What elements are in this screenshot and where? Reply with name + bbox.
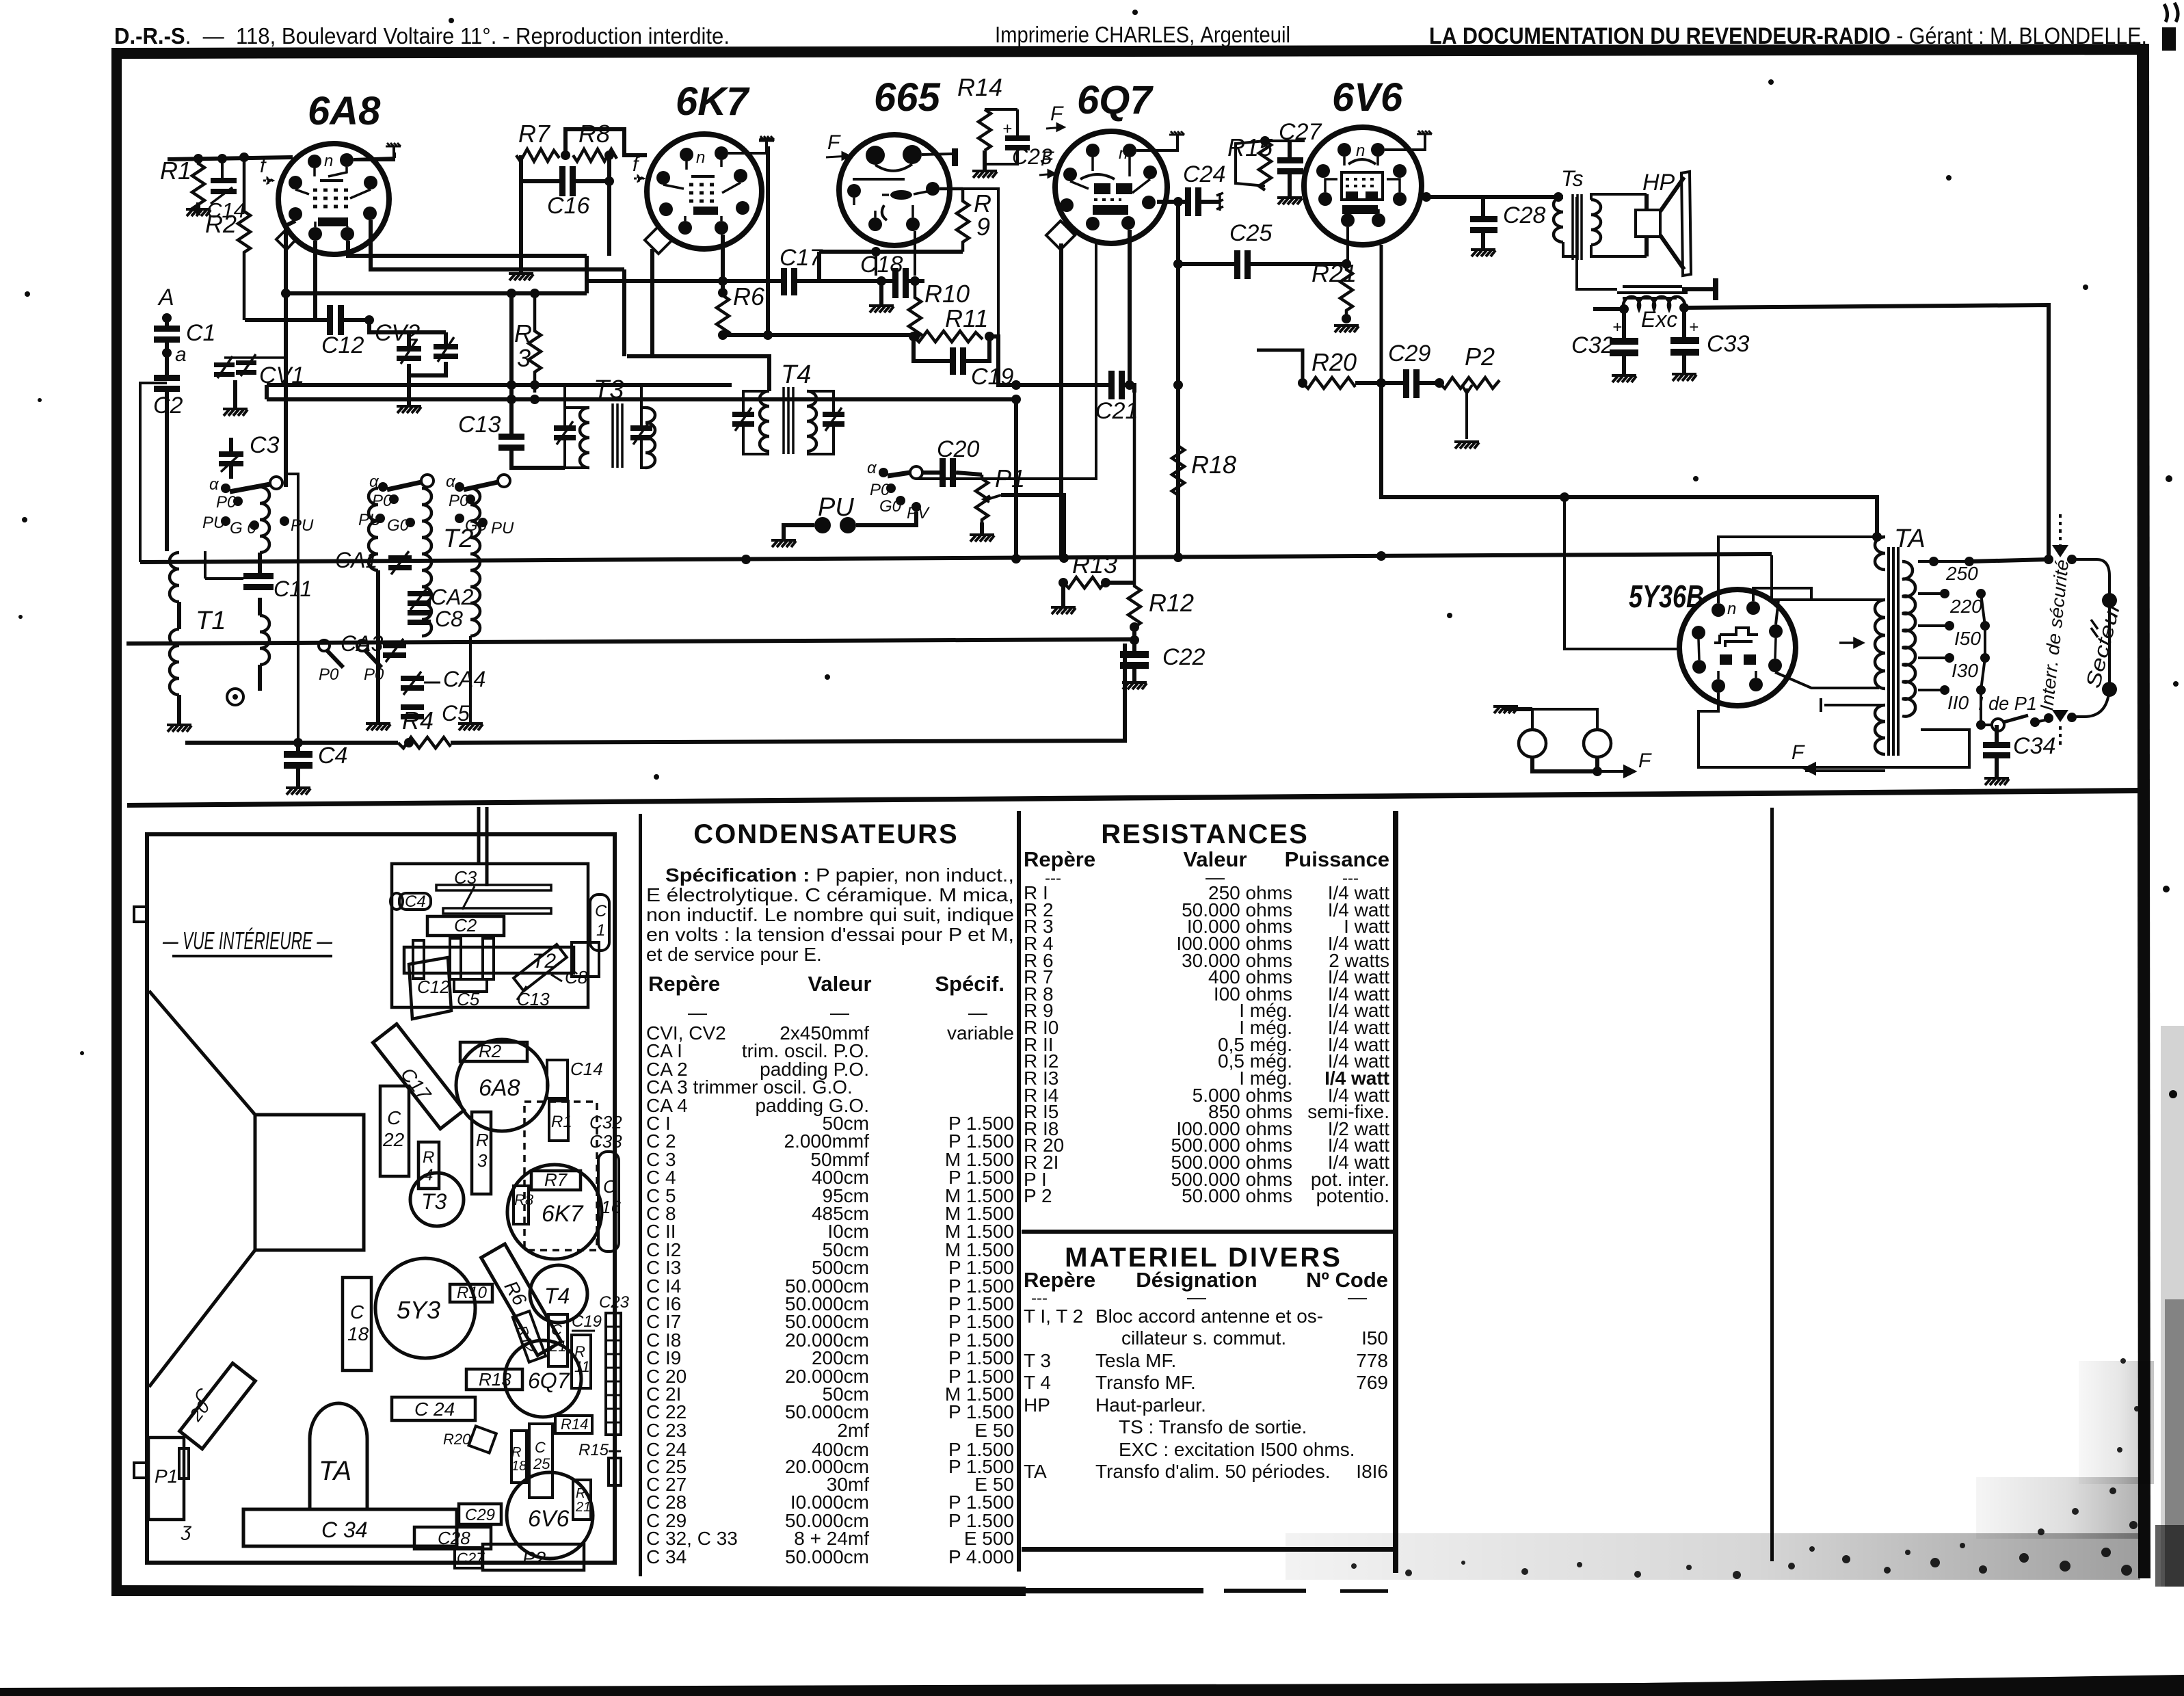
- grid-cap 6V6: [1417, 131, 1432, 134]
- svg-text:Haut-parleur.: Haut-parleur.: [1095, 1394, 1206, 1416]
- tube 6Q7: [1046, 78, 1167, 250]
- svg-text:C32: C32: [1571, 332, 1614, 358]
- svg-text:n: n: [1727, 600, 1736, 618]
- svg-text:C: C: [551, 1321, 562, 1338]
- svg-text:6Q7: 6Q7: [1077, 78, 1154, 122]
- svg-text:C12: C12: [321, 332, 364, 358]
- svg-text:Spécif.: Spécif.: [935, 972, 1004, 996]
- svg-text:Bloc accord antenne et os-: Bloc accord antenne et os-: [1095, 1306, 1323, 1327]
- svg-text:R: R: [511, 1445, 521, 1460]
- svg-text:P2: P2: [1465, 343, 1495, 371]
- wire antenna column riser: [140, 383, 167, 562]
- HP magnet bars: [1617, 287, 1688, 298]
- svg-text:variable: variable: [947, 1022, 1014, 1044]
- T4 left trimmer: [732, 412, 754, 417]
- svg-text:C4: C4: [318, 743, 347, 769]
- divider line between schematic and lists: [127, 788, 2141, 808]
- wire bus y563: [267, 383, 732, 387]
- R13 bar: [466, 1369, 522, 1390]
- svg-text:R10: R10: [457, 1284, 488, 1302]
- svg-text:C12: C12: [417, 977, 450, 997]
- svg-text:769: 769: [1356, 1372, 1388, 1393]
- wire main HT bus: [140, 554, 1772, 562]
- band switch group 1: [202, 475, 314, 538]
- wire 6Q7 pin down 2: [916, 243, 1096, 479]
- svg-text:220: 220: [1949, 596, 1982, 617]
- svg-text:C28: C28: [1503, 202, 1545, 228]
- svg-text:R13: R13: [479, 1369, 511, 1390]
- svg-text:T1: T1: [196, 607, 226, 635]
- T4 left coil: [760, 391, 769, 451]
- table column line 1: [639, 814, 642, 1576]
- wire 6K7 grid cap lead: [766, 146, 770, 208]
- resistances rows: [1024, 882, 1389, 1206]
- C8 slanted rect: [514, 944, 567, 991]
- wire node 1486 down: [1014, 399, 1018, 559]
- svg-text:R15: R15: [578, 1441, 609, 1459]
- svg-text:R20: R20: [1311, 348, 1357, 376]
- svg-text:I30: I30: [1952, 660, 1978, 681]
- wire 6A8 pin bus lower: [371, 220, 624, 356]
- svg-text:5Y36B: 5Y36B: [1629, 579, 1704, 614]
- svg-text:A: A: [157, 284, 174, 310]
- svg-text:6Q7: 6Q7: [528, 1368, 570, 1393]
- TA dome: [310, 1403, 367, 1509]
- svg-text:250: 250: [1945, 563, 1978, 584]
- switch alpha-PO-GO-PU (detector input): [867, 459, 930, 522]
- svg-text:T 3: T 3: [1024, 1350, 1051, 1371]
- svg-text:C2: C2: [454, 915, 477, 936]
- svg-text:R10: R10: [924, 280, 970, 308]
- ground under R1: [186, 209, 211, 216]
- svg-text:665: 665: [874, 75, 941, 120]
- C18 bar: [343, 1277, 371, 1370]
- svg-text:6A8: 6A8: [308, 89, 381, 133]
- svg-text:C33: C33: [589, 1131, 622, 1152]
- tube 5Y3GB rectifier: [1629, 579, 1796, 706]
- svg-text:P1: P1: [155, 1466, 178, 1487]
- wire 6A8 grid bus: [168, 157, 293, 159]
- svg-text:Repère: Repère: [1024, 847, 1095, 871]
- tube 6V6: [1304, 75, 1422, 245]
- svg-text:Imprimerie CHARLES, Argenteuil: Imprimerie CHARLES, Argenteuil: [995, 22, 1290, 47]
- C2 rect: [427, 916, 504, 936]
- svg-text:C28: C28: [438, 1528, 470, 1548]
- svg-text:R1: R1: [551, 1113, 572, 1131]
- wire AVC bus: [126, 639, 1134, 644]
- 6V6 tube circle: [507, 1472, 593, 1559]
- C1 vertical capsule: [590, 895, 609, 951]
- wire 5Y3 filament lead: [1775, 672, 1879, 688]
- svg-text:n: n: [324, 152, 333, 170]
- wire R11 node to C21: [989, 336, 1032, 385]
- svg-text:6V6: 6V6: [1332, 75, 1403, 120]
- svg-text:F: F: [827, 131, 841, 154]
- C27 bar: [455, 1548, 482, 1568]
- R8 bar: [514, 1186, 529, 1224]
- svg-text:C5: C5: [457, 989, 480, 1009]
- svg-text:Valeur: Valeur: [808, 972, 871, 996]
- R4 bar: [418, 1142, 439, 1189]
- svg-text:C32: C32: [589, 1112, 622, 1132]
- C16 capsule: [598, 1152, 619, 1251]
- svg-text:C27: C27: [457, 1550, 485, 1567]
- wire to 5Y3 left: [1564, 497, 1681, 649]
- svg-text:C5: C5: [442, 701, 470, 726]
- R1 bar: [549, 1101, 568, 1141]
- svg-text:Ts: Ts: [1561, 166, 1584, 191]
- 6G5 right tick: [952, 148, 958, 166]
- wire C4 riser: [286, 474, 298, 743]
- svg-text:C: C: [350, 1301, 364, 1323]
- svg-text:+: +: [1689, 318, 1699, 336]
- band switch group 2: [358, 473, 434, 535]
- wire 6V6 plate to TS: [1422, 195, 1563, 199]
- svg-text:R14: R14: [957, 73, 1002, 101]
- svg-text:F: F: [1792, 741, 1805, 764]
- svg-text:+: +: [1612, 318, 1622, 336]
- TA HT winding main: [1875, 600, 1885, 689]
- T4 right coil: [807, 391, 816, 451]
- svg-text:C16: C16: [547, 193, 589, 219]
- svg-text:EXC : excitation I500 ohms.: EXC : excitation I500 ohms.: [1119, 1439, 1355, 1460]
- border frame bottom bar (fades to the right): [111, 1585, 1026, 1596]
- line under materiel divers table: [1022, 1547, 1393, 1552]
- svg-text:T3: T3: [421, 1189, 447, 1214]
- wire R4 bus: [185, 644, 1125, 743]
- svg-text:R: R: [476, 1130, 489, 1150]
- C12 parallelogram: [409, 957, 451, 1019]
- svg-text:n: n: [1356, 142, 1365, 160]
- wire 6G5 plate to R11 node: [963, 189, 998, 336]
- svg-text:R18: R18: [1191, 451, 1236, 479]
- svg-text:25: 25: [533, 1455, 550, 1472]
- svg-text:C25: C25: [1229, 220, 1272, 246]
- stray dots schematic area: [449, 18, 454, 23]
- svg-text:2mf: 2mf: [837, 1420, 869, 1441]
- svg-text:C8: C8: [565, 967, 588, 988]
- stray dots left margin: [25, 291, 30, 297]
- svg-text:C 24: C 24: [414, 1399, 455, 1420]
- C5 small rect: [454, 979, 487, 992]
- wire 5Y3 cathode loop: [1699, 693, 1969, 767]
- dial bars: [436, 885, 551, 890]
- svg-text:R2: R2: [205, 210, 237, 238]
- wire 6K7 right pin down: [766, 208, 770, 334]
- svg-text:Repère: Repère: [648, 972, 720, 996]
- svg-text:P 4.000: P 4.000: [948, 1546, 1014, 1567]
- bottom scan band: [0, 1675, 2184, 1696]
- wire B+ to mains panel: [1684, 305, 2049, 559]
- svg-text:PU: PU: [491, 519, 514, 538]
- svg-text:50.000cm: 50.000cm: [785, 1546, 869, 1567]
- svg-text:T4: T4: [544, 1284, 570, 1308]
- condensateurs rows: [646, 1022, 1014, 1567]
- svg-text:C: C: [595, 902, 607, 920]
- page number mark top right: [2164, 3, 2178, 22]
- svg-text:C3: C3: [250, 432, 280, 458]
- svg-text:cillateur s. commut.: cillateur s. commut.: [1121, 1327, 1286, 1349]
- C20 slanted bar: [180, 1363, 256, 1448]
- svg-text:en volts : la tension d'essai: en volts : la tension d'essai pour P et …: [646, 924, 1014, 945]
- T3 circle: [410, 1173, 464, 1226]
- tuner block box: [392, 864, 588, 1007]
- svg-text:T I, T 2: T I, T 2: [1024, 1306, 1083, 1327]
- grid-cap 6K7: [759, 136, 774, 140]
- svg-text:C29: C29: [1388, 341, 1430, 367]
- T3 core: [613, 403, 622, 468]
- svg-text:C11: C11: [274, 577, 312, 601]
- dashed alignment box: [524, 1102, 597, 1250]
- TA voltage taps: [1918, 557, 2049, 713]
- oscillator block T2: [366, 488, 483, 730]
- wire 6Q7 pin down 1: [1059, 243, 1063, 559]
- R12 slanted bar: [513, 1311, 546, 1362]
- svg-text:C8: C8: [435, 607, 463, 631]
- svg-text:6V6: 6V6: [528, 1506, 570, 1532]
- wire 5Y3 plate top: [1718, 537, 1885, 603]
- R11 bar: [572, 1335, 591, 1388]
- svg-text:1: 1: [596, 921, 605, 940]
- svg-text:P 2: P 2: [1024, 1185, 1052, 1206]
- T3 left trimmer: [554, 425, 576, 431]
- svg-text:+: +: [1002, 120, 1012, 138]
- wire bus y429: [286, 291, 587, 295]
- svg-text:—: —: [968, 1002, 987, 1023]
- C34 bar: [243, 1509, 457, 1546]
- svg-text:P0: P0: [319, 665, 339, 684]
- svg-text:6K7: 6K7: [676, 79, 750, 124]
- svg-text:I50: I50: [1954, 628, 1981, 649]
- TA HT winding top: [1875, 537, 1885, 570]
- svg-text:E électrolytique. C céramique.: E électrolytique. C céramique. M mica,: [646, 884, 1014, 905]
- wire 5Y3 pin stub: [1776, 600, 1779, 624]
- wire T3 to T4: [627, 356, 769, 391]
- tube 6K7: [645, 79, 762, 254]
- svg-text:C1: C1: [186, 320, 215, 346]
- key notch: [276, 229, 296, 250]
- ground under C18 wire: [879, 281, 883, 304]
- speckle band above bottom right: [0, 0, 1, 1]
- svg-text:CA2: CA2: [431, 585, 473, 609]
- svg-text:C24: C24: [1183, 161, 1225, 187]
- output transformer TS: [1554, 166, 1647, 260]
- svg-text:PU: PU: [291, 516, 314, 535]
- R7 bar: [531, 1171, 581, 1190]
- C22 bar: [380, 1086, 409, 1176]
- svg-text:F: F: [1050, 103, 1064, 125]
- C4 small tube: [399, 893, 431, 910]
- svg-text:R8: R8: [578, 120, 610, 148]
- svg-text:Repère: Repère: [1024, 1268, 1095, 1292]
- svg-text:C22: C22: [1162, 644, 1205, 670]
- svg-text:—: —: [830, 1002, 849, 1023]
- svg-text:Transfo MF.: Transfo MF.: [1095, 1372, 1196, 1393]
- filament tap arrow: [1839, 639, 1863, 647]
- R8 bypass wire loop: [565, 129, 647, 155]
- svg-text:C23: C23: [599, 1293, 630, 1312]
- materiel divers rows: [1024, 1306, 1388, 1482]
- wire 6A8 pin to 6K7 row: [348, 241, 587, 293]
- TA core: [1889, 547, 1898, 756]
- svg-text:—: —: [1187, 1286, 1206, 1308]
- svg-text:CONDENSATEURS: CONDENSATEURS: [693, 819, 959, 849]
- svg-text:— VUE INTÉRIEURE —: — VUE INTÉRIEURE —: [162, 927, 332, 955]
- T4 circle: [530, 1265, 587, 1323]
- svg-text:5Y3: 5Y3: [397, 1296, 440, 1324]
- table column line 3: [1393, 811, 1398, 1573]
- svg-text:C4: C4: [405, 892, 426, 911]
- svg-text:F: F: [1638, 750, 1652, 772]
- C24 bar: [392, 1397, 475, 1420]
- C14 bar: [547, 1060, 568, 1098]
- T4 right trimmer: [823, 412, 844, 417]
- ground under CV2: [397, 406, 421, 413]
- svg-text:C: C: [387, 1107, 401, 1128]
- svg-text:I50: I50: [1361, 1327, 1388, 1349]
- TA primary winding: [1902, 561, 1915, 717]
- pilot lamps: [1493, 706, 1652, 776]
- power transformer TA: [1792, 525, 1926, 773]
- svg-text:II0: II0: [1947, 692, 1969, 713]
- 6Q7 tube circle: [505, 1340, 581, 1417]
- svg-text:9: 9: [976, 213, 990, 241]
- wire 6V6 cathode R20: [1257, 245, 1381, 383]
- svg-text:6K7: 6K7: [542, 1201, 584, 1227]
- svg-text:Exc: Exc: [1641, 307, 1677, 332]
- table column line 2: [1017, 811, 1021, 1572]
- svg-text:P0: P0: [364, 665, 384, 684]
- svg-text:T4: T4: [781, 360, 811, 389]
- svg-text:RESISTANCES: RESISTANCES: [1101, 819, 1309, 849]
- small socket circle: [227, 689, 243, 705]
- speaker HP: [1636, 170, 1691, 276]
- svg-text:6A8: 6A8: [479, 1075, 520, 1101]
- svg-text:C14: C14: [570, 1059, 603, 1079]
- R21 bar: [573, 1480, 591, 1520]
- svg-text:T 4: T 4: [1024, 1372, 1051, 1393]
- speaker magnet square: [255, 1115, 364, 1250]
- mains connection secteur: [2036, 514, 2125, 747]
- svg-text:R14: R14: [561, 1416, 588, 1433]
- grid-cap 6Q7: [1169, 131, 1184, 135]
- svg-text:21: 21: [575, 1500, 591, 1515]
- svg-text:G0: G0: [387, 516, 410, 535]
- svg-text:a: a: [175, 343, 187, 366]
- svg-text:C33: C33: [1707, 331, 1749, 357]
- 6A8 tube circle: [456, 1039, 548, 1131]
- svg-text:HP: HP: [1642, 170, 1675, 196]
- svg-text:778: 778: [1356, 1350, 1388, 1371]
- svg-text:R6: R6: [733, 282, 765, 310]
- P2 bar: [483, 1544, 584, 1570]
- wire HT bus to TA winding: [1772, 555, 1874, 600]
- border frame right bar: [2137, 44, 2150, 1578]
- ground under R7: [519, 155, 523, 272]
- wire bus y584: [267, 397, 1016, 401]
- speaker cone outline: [149, 991, 255, 1387]
- svg-text:50.000 ohms: 50.000 ohms: [1182, 1185, 1292, 1206]
- T4 core: [784, 387, 793, 454]
- R6 slanted bar: [481, 1244, 561, 1355]
- svg-text:R: R: [423, 1148, 434, 1167]
- wire 5Y3 plate 2: [1753, 588, 1885, 601]
- T3 right trimmer: [630, 425, 652, 431]
- svg-text:non inductif. Le nombre qui su: non inductif. Le nombre qui suit, indiqu…: [646, 904, 1014, 925]
- svg-text:16: 16: [601, 1197, 621, 1217]
- svg-text:C: C: [603, 1176, 616, 1197]
- R14 bar: [555, 1416, 592, 1433]
- C21 bar: [548, 1314, 568, 1366]
- svg-text:CA4: CA4: [443, 667, 485, 691]
- svg-text:R11: R11: [945, 304, 988, 332]
- svg-text:TA: TA: [1024, 1461, 1047, 1482]
- svg-text:potentio.: potentio.: [1316, 1185, 1389, 1206]
- C25 bar + R18 bar: [511, 1431, 527, 1483]
- svg-text:TA: TA: [319, 1456, 351, 1486]
- svg-text:R20: R20: [443, 1431, 471, 1448]
- svg-text:R2: R2: [479, 1041, 502, 1061]
- svg-text:F: F: [1041, 148, 1054, 170]
- ground under CV1: [223, 409, 248, 416]
- svg-text:C 34: C 34: [321, 1518, 368, 1542]
- svg-text:3: 3: [477, 1150, 488, 1171]
- C28 bar: [414, 1527, 491, 1549]
- border frame left bar: [111, 48, 122, 1596]
- tube 6G5: [839, 75, 950, 246]
- band switch group 3: [446, 473, 514, 538]
- svg-text:R8: R8: [514, 1191, 534, 1208]
- svg-text:C 23: C 23: [646, 1420, 687, 1441]
- svg-text:C29: C29: [465, 1506, 495, 1524]
- IF transformer T4: [732, 360, 844, 454]
- svg-text:I de P1: I de P1: [1978, 693, 2037, 714]
- C29 bar: [459, 1504, 501, 1524]
- small band switches PO: [319, 640, 384, 684]
- svg-text:C17: C17: [780, 245, 823, 271]
- svg-text:T2: T2: [443, 525, 473, 553]
- svg-text:C19: C19: [572, 1312, 602, 1331]
- svg-text:Tesla MF.: Tesla MF.: [1095, 1350, 1176, 1371]
- wire 6Q7 pin down 3: [1128, 230, 1132, 385]
- T3 left coil: [580, 408, 589, 468]
- svg-text:C13: C13: [458, 412, 501, 438]
- dial shaft: [479, 807, 487, 886]
- grid-cap 6A8: [386, 143, 401, 146]
- svg-text:D.-R.-S. — 118, Boulevard Vo: D.-R.-S. — 118, Boulevard Voltaire 11°. …: [114, 23, 730, 49]
- wire 6V6 cathode to TA: [1381, 383, 1877, 537]
- svg-text:Transfo d'alim. 50 périodes.: Transfo d'alim. 50 périodes.: [1095, 1461, 1331, 1482]
- T2 block: [404, 947, 574, 973]
- svg-text:22: 22: [382, 1129, 405, 1150]
- svg-text:C 34: C 34: [646, 1546, 687, 1567]
- svg-text:Puissance: Puissance: [1285, 847, 1389, 871]
- wire 6A8 pin to band switch: [286, 221, 295, 487]
- svg-text:18: 18: [347, 1323, 369, 1344]
- R2 bar: [460, 1042, 527, 1061]
- svg-text:TS : Transfo de sortie.: TS : Transfo de sortie.: [1119, 1416, 1307, 1437]
- svg-text:P2: P2: [522, 1548, 546, 1569]
- svg-text:α: α: [446, 473, 456, 491]
- svg-text:ʒ: ʒ: [181, 1519, 192, 1540]
- 5Y3 tube circle: [375, 1258, 475, 1358]
- chassis outline box: [147, 834, 615, 1563]
- svg-text:R7: R7: [518, 120, 551, 148]
- svg-text:α: α: [209, 475, 219, 494]
- svg-text:R: R: [576, 1486, 585, 1501]
- svg-text:—: —: [688, 1002, 707, 1023]
- wires left column: [265, 385, 269, 399]
